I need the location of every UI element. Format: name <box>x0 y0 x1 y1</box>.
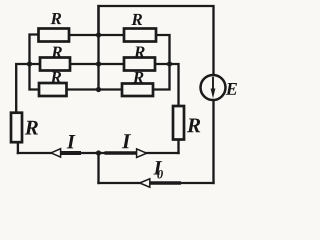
resistor R7 left vertical <box>11 113 22 143</box>
resistor R5 row2 right <box>124 58 155 71</box>
node dot right bus row2 <box>167 61 172 66</box>
wire row3 middle <box>67 88 123 90</box>
wire left resistor top stub / row2 left jog <box>16 64 40 112</box>
label I left <box>67 135 76 148</box>
wire top loop <box>99 6 214 75</box>
resistor R8 right vertical <box>173 106 184 140</box>
wire left resistor bottom stub <box>17 143 19 153</box>
wire middle horizontal right of junction <box>99 152 179 154</box>
current arrow I0 bottom (open head, thick shaft) <box>140 179 181 187</box>
current arrow I right (open head, thick shaft) <box>105 149 147 158</box>
resistor R3 row3 left <box>39 83 67 96</box>
node dot left bus row2 <box>27 61 32 66</box>
label R row3 right <box>133 72 144 83</box>
source E internal arrow <box>211 77 216 99</box>
label R row1 left <box>50 13 61 24</box>
wire middle drop <box>97 153 99 183</box>
node dot middle bus row1 <box>96 32 101 37</box>
node dot middle bus row3 <box>96 87 101 92</box>
source E circle <box>201 75 226 100</box>
wire row2 right jog <box>155 64 179 106</box>
wire right vertical below source <box>212 101 214 184</box>
label I0 subscript <box>157 170 163 178</box>
wire middle bus <box>97 6 99 90</box>
wire left bus <box>30 35 40 90</box>
label E <box>226 83 237 95</box>
wire bottom <box>99 182 214 184</box>
node dot middle bus row2 <box>96 61 101 66</box>
label R row1 right <box>131 14 142 25</box>
resistor R2 row2 left <box>40 58 70 71</box>
resistor R1 row1 left <box>39 29 70 42</box>
label R right vertical <box>187 118 200 132</box>
label I0 <box>153 161 162 174</box>
resistor R4 row1 right <box>124 29 156 42</box>
wire right bus <box>153 35 170 90</box>
wire row2 middle <box>70 63 124 65</box>
label R row2 right <box>134 46 145 57</box>
resistor R6 row3 right <box>122 84 153 97</box>
wire middle horizontal left of junction <box>18 152 99 154</box>
wire right resistor bottom stub <box>177 140 179 154</box>
wire row1 middle <box>69 34 124 36</box>
node dot middle wire junction <box>96 150 101 155</box>
current arrow I left (open head, thick shaft) <box>51 149 81 157</box>
label R row3 left <box>50 72 61 83</box>
label I right <box>122 134 131 148</box>
label R row2 left <box>51 47 62 58</box>
label R left vertical <box>25 121 38 135</box>
